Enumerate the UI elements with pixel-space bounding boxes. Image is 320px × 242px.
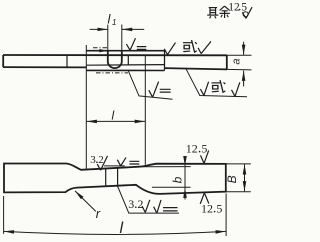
其 character — [207, 8, 218, 19]
top view: bar left end edge — [2, 55, 4, 67]
roughness symbol on right leader (left of 或) — [200, 82, 208, 96]
dimension l (bottom): left extension line — [3, 196, 5, 234]
plug weld U slot — [108, 51, 122, 68]
bottom view: joint line 2 — [117, 168, 119, 186]
svg-text:2: 2 — [98, 154, 104, 166]
bottom view: joint line 1 — [105, 168, 107, 185]
dimension a: bottom extension line — [227, 68, 252, 71]
roughness symbol with = on 3.2 note leader — [154, 200, 178, 213]
top view: interface line inside collar — [86, 64, 164, 67]
roughness symbol under 12.5 (top right, grip edge) — [201, 150, 209, 163]
dimension l1: right extension line — [121, 25, 123, 51]
svg-text:2: 2 — [137, 197, 143, 211]
roughness symbol above bar (left of first 或) — [164, 43, 175, 55]
svg-text:1: 1 — [112, 18, 116, 27]
leader line below collar — [128, 71, 172, 100]
其余 text drawn as strokes — [207, 6, 230, 18]
top view: collar right edge — [164, 51, 166, 71]
roughness symbol under 3.2 text (gauge edge) — [97, 156, 107, 170]
dimension b: upper extension line — [139, 166, 191, 168]
svg-text:r: r — [96, 206, 101, 221]
top view: bar bottom edge right segment — [165, 68, 228, 69]
svg-text:5: 5 — [201, 142, 207, 156]
roughness symbol above bar (right of first 或) — [198, 41, 211, 53]
svg-text:a: a — [230, 58, 242, 64]
roughness symbol with = on leader below collar — [149, 82, 171, 98]
svg-text:l: l — [112, 108, 115, 122]
roughness symbol with = on collar top — [126, 38, 146, 50]
dimension a: top extension line — [227, 54, 252, 56]
dimension l (bottom): dimension line with arrows — [4, 231, 226, 234]
leader with arrow for fillet r — [75, 191, 96, 212]
svg-text:5: 5 — [241, 1, 247, 13]
dimension b: lower extension line — [152, 186, 191, 188]
roughness symbol with circle (其余) — [242, 7, 252, 18]
dimension B: bottom extension line — [226, 191, 251, 193]
dash-dot segment above collar — [93, 47, 108, 49]
svg-text:3: 3 — [128, 197, 134, 211]
svg-text:b: b — [171, 176, 185, 183]
svg-text:3: 3 — [90, 154, 96, 166]
projection line x=145 connecting views — [144, 55, 146, 165]
dimension l1: left extension line — [107, 25, 109, 51]
top view: bar right end edge — [226, 55, 228, 69]
svg-text:12: 12 — [186, 142, 198, 156]
leader line below bar right — [186, 69, 247, 97]
dimension a: upper dimension line with arrow — [243, 42, 245, 55]
top view: bar bottom edge left segment — [3, 66, 87, 68]
dash-dot segment below collar — [96, 72, 128, 74]
projection line x=86 connecting views — [85, 45, 87, 169]
top view: inner division line at x=128 — [127, 55, 129, 65]
svg-text:l: l — [108, 12, 112, 27]
extension shelf for upper 3.2 symbol — [104, 165, 125, 167]
dimension l1: right dimension line with arrow — [122, 28, 144, 30]
dimension l (middle): dimension line with arrows — [87, 120, 145, 122]
roughness symbol with = on shelf — [117, 157, 139, 166]
svg-text:5: 5 — [216, 202, 222, 216]
dimension B: dimension line with arrows — [244, 164, 246, 191]
svg-text:12: 12 — [228, 1, 240, 13]
roughness symbol on right leader (right of 或) — [232, 82, 240, 96]
roughness symbol on 3.2 note leader — [142, 200, 150, 213]
svg-text:B: B — [225, 175, 239, 183]
top view: bar top edge — [3, 54, 227, 56]
top view: collar bottom edge — [86, 69, 164, 71]
或 character above bar — [183, 40, 197, 52]
svg-text:12: 12 — [201, 202, 213, 216]
dimension a: lower dimension line with arrow — [243, 71, 245, 87]
或 character on lower right leader — [212, 80, 226, 92]
dimension l1: left dimension line with arrow — [90, 28, 108, 30]
top view: collar top edge — [86, 50, 164, 52]
dimension l (bottom): right extension line — [225, 194, 227, 237]
arrowhead on collar top line — [99, 49, 107, 52]
bottom view: specimen outline — [4, 164, 226, 194]
svg-text:l: l — [120, 220, 124, 237]
top view: division line at x=67 — [66, 55, 68, 67]
inverted roughness symbol on grip bottom (12.5) — [200, 193, 209, 204]
leader from joint line to 3.2 note — [118, 186, 180, 213]
dimension b: dimension line with arrows — [184, 166, 186, 188]
dimension B: top extension line — [226, 163, 251, 165]
余 character — [219, 6, 229, 18]
